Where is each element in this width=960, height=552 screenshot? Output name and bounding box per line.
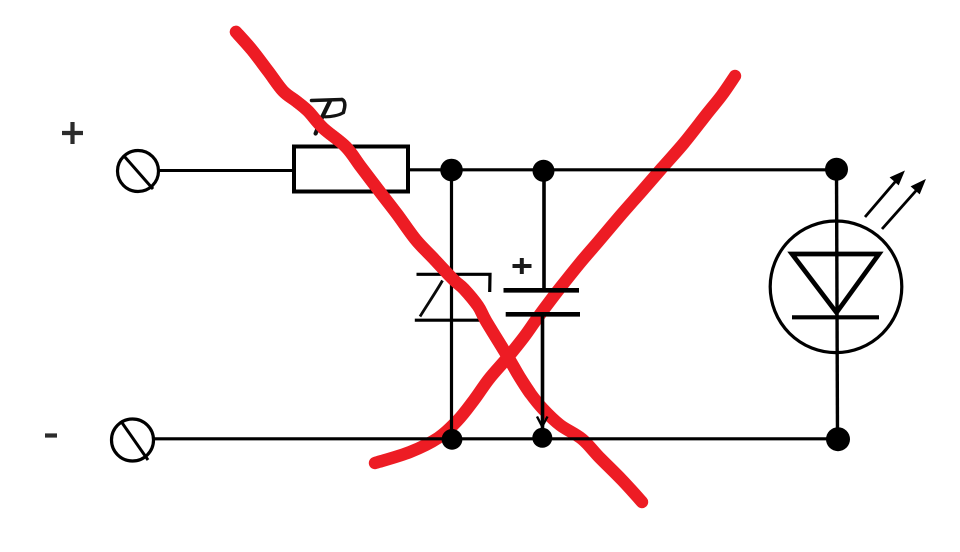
LED D2 outline circle xyxy=(770,221,902,353)
plus polarity label xyxy=(62,122,83,144)
capacitor C1 plus label xyxy=(513,258,532,274)
small arrowhead on capacitor lower wire xyxy=(537,417,548,427)
junction dot bottom A xyxy=(442,429,463,450)
red cross stroke 1 (top-left to bottom-right, lower part under black) xyxy=(236,32,642,502)
junction dot top B (capacitor tap) xyxy=(533,160,555,182)
junction dot top C (LED tap) xyxy=(825,158,848,181)
capacitor C1 upper wire xyxy=(542,170,546,291)
zener diode D1 diagonal xyxy=(420,281,443,317)
minus polarity label xyxy=(45,433,57,437)
capacitor C1 lower wire xyxy=(541,316,545,433)
zener diode D1 vertical wire xyxy=(450,170,453,439)
terminal T2 (- input) xyxy=(112,419,154,461)
red cross stroke 2 (bottom-left to top-right, under black) xyxy=(375,76,735,463)
red cross stroke 1 overlay (upper segment drawn over components) xyxy=(236,32,530,393)
LED D2 vertical wire xyxy=(837,169,838,439)
wire: bottom rail xyxy=(153,437,838,440)
wire: top rail resistor to LED xyxy=(408,168,837,171)
zener diode D1 cathode bar xyxy=(417,274,491,292)
LED emission arrow 2 xyxy=(882,180,925,229)
label R xyxy=(312,100,345,134)
capacitor C1 top plate xyxy=(504,288,580,293)
junction dot top A (zener tap) xyxy=(440,159,463,182)
capacitor C1 bottom plate xyxy=(506,312,580,317)
LED D2 triangle xyxy=(792,254,879,313)
resistor R1 body xyxy=(294,147,408,192)
junction dot bottom B xyxy=(532,428,552,448)
LED D2 cathode bar xyxy=(792,315,879,319)
wire: T1 to resistor xyxy=(159,169,295,172)
zener diode D1 anode bar xyxy=(415,319,490,322)
terminal T1 (+ input) xyxy=(118,151,159,192)
LED emission arrow 1 xyxy=(865,172,904,218)
junction dot bottom C xyxy=(826,427,850,451)
